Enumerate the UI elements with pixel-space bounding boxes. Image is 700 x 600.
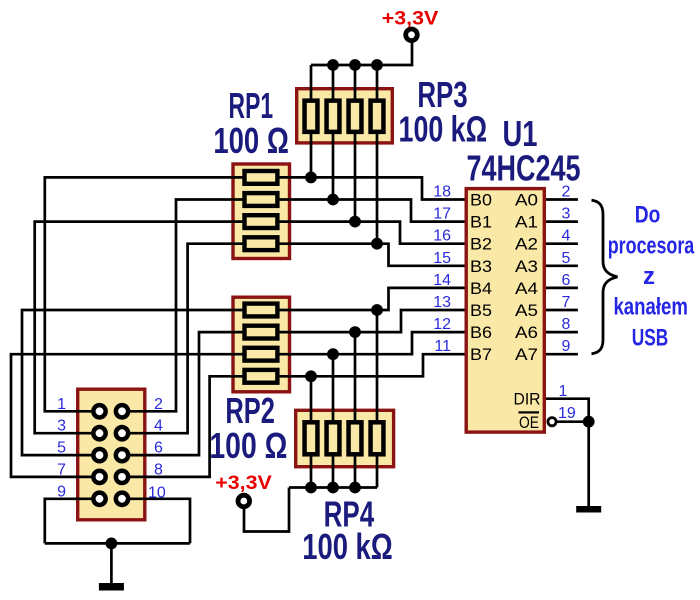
svg-text:11: 11 <box>434 338 451 355</box>
wire pin6 to RP2 r2 <box>122 332 246 455</box>
node RP3-RP1 junction 2 <box>327 194 339 206</box>
svg-text:4: 4 <box>562 228 571 245</box>
connector pin 1 pad <box>91 403 108 420</box>
svg-text:+3,3V: +3,3V <box>382 8 439 29</box>
svg-text:5: 5 <box>57 440 66 457</box>
svg-text:100 Ω: 100 Ω <box>209 425 287 466</box>
resistor RP4 element 2 <box>327 422 340 454</box>
wire RP2 r2 to B5 <box>276 310 466 332</box>
node RP4-RP2 junction 2 <box>349 326 361 338</box>
resistor-pack RP2 box <box>233 297 290 392</box>
resistor RP2 elements <box>245 304 278 383</box>
connector pin 6 pad <box>114 447 131 464</box>
svg-text:A2: A2 <box>515 235 538 254</box>
svg-text:USB: USB <box>632 324 669 351</box>
wire RP2 r1 to B4 <box>276 288 466 310</box>
connector pin 8 pad <box>114 469 131 486</box>
svg-text:B0: B0 <box>470 191 492 210</box>
wire RP2 r4 to B7 <box>276 354 466 376</box>
svg-text:9: 9 <box>562 338 571 355</box>
curly brace <box>592 200 618 354</box>
wire pin9 to gnd bus <box>45 499 100 544</box>
svg-text:19: 19 <box>558 405 576 422</box>
svg-text:12: 12 <box>433 316 451 333</box>
wire OE to gnd2 <box>587 422 590 506</box>
connector pins <box>91 403 130 507</box>
svg-text:16: 16 <box>433 228 451 245</box>
svg-text:100 Ω: 100 Ω <box>213 120 289 161</box>
svg-text:2: 2 <box>154 396 163 413</box>
node RP3-RP1 junction 3 <box>349 216 361 228</box>
resistor RP2 element 2 <box>245 326 278 339</box>
svg-text:8: 8 <box>562 316 571 333</box>
wire RP1 r3 to B2 <box>276 222 466 244</box>
svg-text:17: 17 <box>433 206 451 223</box>
IC U1 74HC245 body <box>466 189 544 433</box>
svg-text:1: 1 <box>57 396 66 413</box>
svg-text:6: 6 <box>154 440 163 457</box>
resistor-pack RP3 box <box>297 89 393 143</box>
wire A1 <box>545 220 578 223</box>
svg-text:B7: B7 <box>470 345 492 364</box>
svg-text:4: 4 <box>154 418 163 435</box>
ground 1 <box>99 583 124 591</box>
svg-text:7: 7 <box>57 461 66 478</box>
svg-text:A7: A7 <box>515 345 538 364</box>
svg-text:+3,3V: +3,3V <box>215 473 272 494</box>
power terminal +3,3V top <box>406 29 418 41</box>
resistor RP3 element 2 <box>327 101 340 132</box>
resistor-pack RP1 box <box>233 164 290 259</box>
node +3,3V bus junction c <box>371 59 383 71</box>
wire A3 <box>545 264 578 267</box>
resistor RP3 element 3 <box>349 101 362 132</box>
wire RP3 r4 vertical <box>376 65 379 244</box>
node RP4-RP2 junction 3 <box>327 348 339 360</box>
svg-text:B2: B2 <box>470 235 492 254</box>
svg-text:6: 6 <box>562 272 571 289</box>
OE inversion bubble <box>548 418 556 426</box>
svg-text:A4: A4 <box>515 279 538 298</box>
connector pin 7 pad <box>91 469 108 486</box>
svg-text:A6: A6 <box>515 323 538 342</box>
wire RP1 r2 to B1 <box>276 200 466 222</box>
connector pin 3 pad <box>91 425 108 442</box>
wire RP1 r4 to B3 <box>276 244 466 266</box>
wire pin10 to gnd bus <box>122 499 190 544</box>
svg-text:74HC245: 74HC245 <box>467 147 581 188</box>
svg-text:Do: Do <box>635 202 661 229</box>
resistor RP3 elements <box>305 101 384 132</box>
svg-text:9: 9 <box>57 483 66 500</box>
wire RP3 r1 vertical <box>310 65 313 177</box>
svg-text:2: 2 <box>562 184 571 201</box>
node RP4 bottom bus junction c <box>349 482 361 494</box>
wire DIR pin1 <box>545 399 589 422</box>
node RP4 bottom bus junction a <box>305 482 317 494</box>
connector J1 box <box>78 389 145 520</box>
node RP4 bottom bus junction b <box>327 482 339 494</box>
resistor RP2 element 3 <box>245 348 278 361</box>
wire pin4 to RP1 r4 <box>122 244 246 434</box>
wire A7 <box>545 353 578 356</box>
wire RP1 r1 to B0 <box>276 177 466 199</box>
wire A0 <box>545 198 578 201</box>
svg-text:100 kΩ: 100 kΩ <box>399 109 488 150</box>
svg-text:B5: B5 <box>470 301 492 320</box>
svg-text:OE: OE <box>519 413 539 432</box>
wire RP4 r3 vertical <box>354 332 357 487</box>
wire pin8 to RP2 r4 <box>122 376 246 477</box>
svg-text:z: z <box>643 263 655 290</box>
wire pin5 to RP2 r1 <box>22 310 246 455</box>
svg-text:3: 3 <box>57 418 66 435</box>
resistor-pack RP4 box <box>296 410 394 466</box>
node +3,3V bus junction a <box>327 59 339 71</box>
node RP3-RP1 junction 1 <box>305 172 317 184</box>
node RP3-RP1 junction 4 <box>371 238 383 250</box>
wire RP3 top bus to +3,3V <box>311 42 412 65</box>
svg-text:10: 10 <box>148 484 166 501</box>
wire +3,3V lower to bus <box>244 488 289 532</box>
resistor RP1 elements <box>245 171 278 250</box>
wire pin2 to RP1 r2 <box>122 200 246 412</box>
node ground bus junction <box>106 538 118 550</box>
ground 2 <box>576 506 601 513</box>
wire RP4 r2 vertical <box>332 354 335 487</box>
resistor RP4 elements <box>305 422 384 454</box>
resistor RP4 element 3 <box>349 422 362 454</box>
resistor RP1 element 2 <box>245 193 278 206</box>
svg-text:B1: B1 <box>470 213 492 232</box>
svg-text:14: 14 <box>433 272 451 289</box>
wire OE pin19 <box>557 420 589 423</box>
svg-text:B6: B6 <box>470 323 492 342</box>
resistor RP1 element 4 <box>245 237 278 250</box>
resistor RP1 element 1 <box>245 171 278 184</box>
connector pin 2 pad <box>114 403 131 420</box>
svg-text:5: 5 <box>562 250 571 267</box>
svg-text:7: 7 <box>562 294 571 311</box>
svg-text:A5: A5 <box>515 301 538 320</box>
wire A6 <box>545 331 578 334</box>
svg-text:DIR: DIR <box>514 390 541 409</box>
connector pin 5 pad <box>91 447 108 464</box>
svg-text:13: 13 <box>433 294 451 311</box>
node +3,3V bus junction b <box>349 59 361 71</box>
connector pin 9 pad <box>91 490 108 507</box>
svg-text:1: 1 <box>559 383 568 400</box>
wire RP4 r4 vertical <box>376 310 379 488</box>
resistor RP3 element 1 <box>305 101 318 132</box>
wire gnd bus <box>45 542 190 545</box>
svg-text:B3: B3 <box>470 257 492 276</box>
resistor RP3 element 4 <box>371 101 384 132</box>
wire A2 <box>545 242 578 245</box>
resistor RP2 element 1 <box>245 304 278 317</box>
svg-text:3: 3 <box>562 206 571 223</box>
svg-text:100 kΩ: 100 kΩ <box>302 526 393 567</box>
svg-text:15: 15 <box>433 250 451 267</box>
svg-text:procesora: procesora <box>608 232 695 259</box>
wire pin7 to RP2 r3 <box>11 354 246 477</box>
resistor RP4 element 4 <box>371 422 384 454</box>
wire gnd1 stem <box>110 543 113 583</box>
connector pin 4 pad <box>114 425 131 442</box>
wire RP4 r1 vertical <box>310 376 313 487</box>
OE overline <box>519 411 540 413</box>
wire RP2 r3 to B6 <box>276 332 466 354</box>
svg-text:A3: A3 <box>515 257 538 276</box>
resistor RP4 element 1 <box>305 422 318 454</box>
wire pin1 to RP1 r1 <box>45 177 246 411</box>
node pin19 junction <box>583 416 595 428</box>
wire A4 <box>545 287 578 290</box>
wire A5 <box>545 309 578 312</box>
node RP4-RP2 junction 1 <box>371 304 383 316</box>
connector pin 10 pad <box>114 490 131 507</box>
svg-text:8: 8 <box>154 461 163 478</box>
wire RP3 r3 vertical <box>354 65 357 222</box>
wire RP4 bottom bus <box>289 486 377 489</box>
power terminal +3,3V bottom <box>238 495 250 507</box>
svg-text:A0: A0 <box>515 191 538 210</box>
resistor RP2 element 4 <box>245 370 278 383</box>
svg-text:18: 18 <box>433 184 451 201</box>
svg-text:B4: B4 <box>470 279 492 298</box>
wire RP3 r2 vertical <box>332 65 335 200</box>
svg-text:kanałem: kanałem <box>613 294 688 321</box>
wire pin3 to RP1 r3 <box>35 222 246 434</box>
svg-text:A1: A1 <box>515 213 538 232</box>
resistor RP1 element 3 <box>245 215 278 228</box>
node RP4-RP2 junction 4 <box>305 370 317 382</box>
